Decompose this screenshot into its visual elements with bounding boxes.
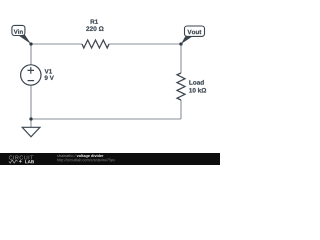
wire top-left horizontal (node A to R1) <box>31 43 82 45</box>
footer logo CIRCUIT <box>9 156 33 160</box>
value 10 kohm <box>189 88 206 93</box>
value 220 ohm <box>86 26 103 31</box>
node Vin flag tail <box>18 34 31 44</box>
wire node B down to Load top <box>180 44 182 73</box>
footer logo LAB <box>25 160 34 163</box>
footer url <box>57 158 115 162</box>
wire node A down to V1 top <box>30 44 32 65</box>
label V1 <box>45 69 52 73</box>
footer credit user <box>57 154 75 157</box>
label Load <box>189 80 203 85</box>
ground <box>22 127 40 137</box>
node Vout flag tail <box>181 36 193 44</box>
junction node A <box>29 42 32 45</box>
resistor Load <box>177 73 185 100</box>
resistor R1 <box>82 40 109 48</box>
label R1 <box>91 19 98 23</box>
footer bar <box>0 153 220 165</box>
wire bottom horizontal <box>31 118 181 120</box>
footer credit title <box>77 154 104 158</box>
node Vout flag <box>185 26 205 36</box>
footer logo diamond <box>19 160 22 163</box>
wire Load bottom to bottom-right corner <box>180 100 182 119</box>
value 9 V <box>45 76 54 80</box>
wire V1 bottom to bottom-left junction <box>30 85 32 119</box>
wire top-right horizontal (R1 to node B) <box>109 43 181 45</box>
node Vin flag <box>12 25 25 35</box>
wire ground stub <box>30 119 32 127</box>
voltage source V1 <box>21 65 41 85</box>
junction node B <box>179 42 182 45</box>
footer logo resistor squiggle <box>9 160 18 163</box>
junction bottom-left <box>29 117 32 120</box>
